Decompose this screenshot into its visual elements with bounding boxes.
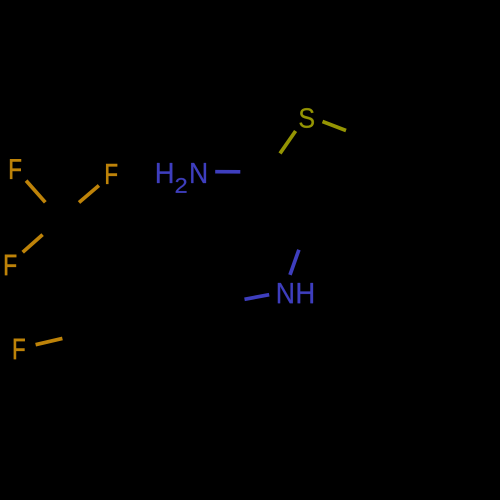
node H2N amine label [157, 163, 172, 183]
node F2 fluorine label [106, 164, 117, 184]
wire S-C2 half-bond [280, 131, 296, 153]
wire H2N-C2 half-bond [215, 170, 240, 174]
node F1 fluorine label [10, 159, 21, 179]
wire HN-C1' half-bond [245, 295, 270, 300]
wire F2-CF3 half-bond [79, 186, 99, 203]
wire HN-C3 half-bond [290, 250, 299, 275]
wire F1-CF3 half-bond [26, 181, 45, 203]
wire F4-C4' half-bond [36, 338, 63, 344]
node NH amine label [278, 283, 293, 303]
wire S-C7a half-bond [323, 122, 347, 131]
node F3 fluorine label [5, 255, 16, 275]
node F4 fluorine label [14, 339, 25, 359]
node S thiophene sulfur label [299, 108, 313, 128]
wire F3-CF3 half-bond [23, 235, 43, 253]
